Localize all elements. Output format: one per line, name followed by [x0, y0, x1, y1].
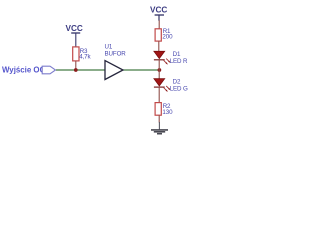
svg-text:U1: U1 [105, 44, 113, 51]
svg-text:LED R: LED R [170, 58, 188, 65]
svg-text:LED G: LED G [170, 85, 188, 92]
svg-text:BUFOR: BUFOR [105, 51, 127, 58]
svg-text:VCC: VCC [66, 24, 83, 33]
svg-text:130: 130 [162, 109, 173, 116]
svg-text:200: 200 [162, 33, 173, 40]
svg-text:Wyjście OC: Wyjście OC [2, 66, 46, 75]
svg-text:VCC: VCC [150, 6, 167, 15]
svg-text:4,7k: 4,7k [79, 54, 91, 61]
